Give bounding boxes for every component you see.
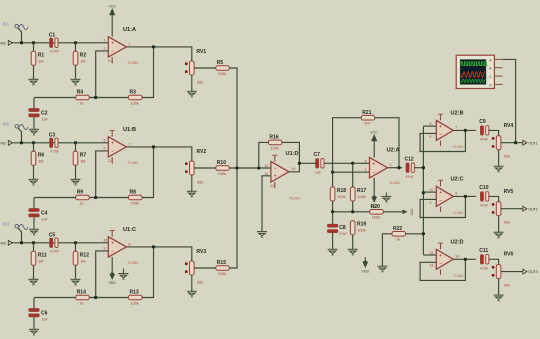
capacitor C8 (327, 224, 348, 236)
svg-text:50k: 50k (197, 181, 203, 185)
svg-text:TL084: TL084 (127, 161, 138, 165)
svg-text:8: 8 (129, 242, 131, 246)
terminal IN2 (1, 140, 13, 145)
junction summing rail (235, 166, 238, 169)
power stub top U1:A (111, 15, 113, 37)
wire RV3 wiper to R15 (194, 267, 216, 269)
potentiometer RV5 (492, 189, 514, 225)
svg-text:50k: 50k (197, 281, 203, 285)
wire C2 leads (33, 98, 35, 109)
terminal OUT1 (523, 140, 538, 145)
capacitor C4 (29, 209, 49, 222)
resistor R2 (73, 51, 86, 65)
svg-text:13: 13 (265, 164, 269, 168)
svg-text:100k: 100k (372, 216, 380, 220)
terminal OUT3 (523, 269, 538, 274)
svg-text:VDD: VDD (108, 281, 116, 285)
junction output node (152, 245, 155, 248)
svg-text:7: 7 (129, 142, 131, 146)
svg-text:U1:D: U1:D (286, 151, 299, 157)
pin stubs oscilloscope B C D (494, 67, 502, 69)
wire summing rail (229, 68, 237, 268)
power stub top U2:D (440, 243, 442, 249)
svg-text:1M: 1M (38, 160, 43, 164)
wire output U2:B (454, 129, 477, 131)
resistor R7 (73, 151, 86, 165)
wire bias rail to + input U2:D (423, 254, 436, 256)
svg-text:1k: 1k (80, 101, 84, 105)
wire R22 left to ground (382, 234, 392, 266)
wire R9 row (34, 197, 76, 199)
svg-text:11: 11 (270, 184, 274, 188)
capacitor C1 (49, 33, 60, 54)
svg-text:12: 12 (265, 172, 269, 176)
ground (71, 279, 81, 285)
svg-text:VCC: VCC (108, 5, 116, 9)
junction R1 top (32, 41, 35, 44)
svg-text:C7: C7 (314, 152, 321, 158)
capacitor C6 (29, 309, 49, 322)
wire RV5 to ground (498, 216, 500, 233)
svg-text:C5: C5 (49, 233, 56, 239)
svg-text:VCC: VCC (370, 130, 378, 134)
svg-text:R18: R18 (337, 188, 346, 194)
power stub top U1:C (111, 231, 113, 237)
junction U2:A output (397, 166, 400, 169)
wire R2 leads (75, 43, 77, 52)
svg-text:R11: R11 (38, 253, 47, 259)
svg-text:12: 12 (430, 251, 434, 255)
op-amp U2:C (430, 176, 464, 215)
resistor R8 (129, 190, 143, 206)
svg-text:R14: R14 (77, 290, 86, 296)
power stub top U2:C (440, 180, 442, 186)
svg-text:U2:B: U2:B (451, 110, 464, 116)
ground (71, 79, 81, 85)
wire bias row (332, 201, 334, 212)
wire C8 leads (332, 212, 334, 224)
svg-text:U1:A: U1:A (123, 27, 136, 33)
ground pin 11 (123, 269, 125, 274)
wire output U2:C (454, 195, 477, 197)
svg-text:1uF: 1uF (42, 217, 49, 221)
capacitor C9 (479, 119, 489, 141)
junction OUT1 node (514, 141, 517, 144)
junction C8 (331, 210, 334, 213)
wire IN2 main row (12, 142, 108, 144)
power flag VCC right (383, 208, 414, 216)
wire C10 to RV5 (489, 196, 499, 201)
svg-text:VDD: VDD (362, 270, 370, 274)
junction U1:D output (298, 162, 301, 165)
wire R21 right leg (375, 118, 399, 168)
capacitor C10 (479, 185, 489, 207)
ground (187, 191, 197, 197)
capacitor C7 (314, 152, 325, 174)
generator IN2 (3, 122, 29, 130)
svg-text:10: 10 (104, 239, 108, 243)
wire feedback node to + input U1:A (96, 51, 109, 98)
resistor R13 (129, 290, 143, 306)
op-amp U2:A (365, 148, 400, 185)
power stub top U1:B (111, 131, 113, 137)
junction R11 top (32, 241, 35, 244)
svg-text:50k: 50k (504, 284, 510, 288)
ground (494, 166, 504, 172)
svg-text:R13: R13 (130, 290, 139, 296)
svg-text:47uF: 47uF (480, 266, 489, 270)
svg-text:100k: 100k (357, 195, 365, 199)
svg-text:6: 6 (430, 135, 432, 139)
wire R6 leads (33, 143, 35, 152)
svg-text:R4: R4 (77, 90, 84, 96)
svg-text:100k: 100k (337, 195, 345, 199)
ground (377, 266, 387, 272)
power VDD below U1:C (111, 257, 113, 272)
svg-text:1k: 1k (80, 201, 84, 205)
resistor R4 (76, 90, 90, 106)
wire feedback node to + input U1:C (96, 251, 109, 298)
svg-text:1k: 1k (80, 301, 84, 305)
svg-text:4.7uF: 4.7uF (50, 50, 60, 54)
generator IN1 (3, 22, 29, 30)
wire RV6 to ground (498, 279, 500, 296)
wire bias rail to + input U2:B (423, 125, 436, 127)
wire RV1 to ground (191, 75, 193, 91)
wire R8 to output node (142, 147, 154, 198)
svg-text:C10: C10 (479, 185, 488, 191)
junction bias rail U2:C (422, 191, 425, 194)
svg-text:IN3: IN3 (1, 242, 6, 246)
op-amp U1:D (265, 151, 300, 201)
junction output U2:D (464, 258, 467, 261)
wire C11 to RV6 (489, 259, 499, 264)
wire IN3 main row (12, 242, 108, 244)
svg-text:R15: R15 (217, 260, 226, 266)
resistor R5 (216, 60, 230, 76)
junction feedback node (94, 96, 97, 99)
junction output U2:C (464, 195, 467, 198)
svg-text:RV4: RV4 (504, 123, 514, 129)
wire summing row to U1:D (229, 167, 271, 169)
power stub bottom U2:B (440, 141, 442, 146)
svg-text:R1: R1 (38, 53, 45, 59)
ground pin U2:A (385, 193, 387, 197)
generator IN3 (3, 222, 29, 230)
ground (29, 179, 39, 185)
wire R16 right leg (282, 142, 300, 163)
svg-text:100k: 100k (218, 72, 226, 76)
wire RV5 wiper to OUT2 (501, 208, 523, 210)
pin stub oscilloscope A (494, 58, 502, 60)
power stub bottom U1:B (111, 157, 113, 163)
svg-text:100k: 100k (131, 301, 139, 305)
junction input node (20, 241, 23, 244)
op-amp U2:D (430, 239, 464, 278)
ground (348, 249, 358, 255)
svg-text:RV6: RV6 (504, 252, 514, 258)
svg-text:R7: R7 (80, 153, 87, 159)
svg-text:C12: C12 (405, 157, 414, 163)
svg-text:C3: C3 (49, 133, 56, 139)
resistor R15 (216, 260, 230, 276)
wire R16 left leg (259, 142, 269, 168)
ground (71, 179, 81, 185)
oscilloscope (456, 55, 494, 88)
junction bias rail R22 (422, 232, 425, 235)
resistor R21 (361, 110, 375, 126)
svg-text:R8: R8 (130, 190, 137, 196)
svg-text:R22: R22 (393, 226, 402, 232)
svg-text:R6: R6 (38, 153, 45, 159)
potentiometer RV3 (185, 249, 206, 285)
wire R7 leads (75, 143, 77, 152)
junction output U2:B (464, 129, 467, 132)
junction output node (152, 145, 155, 148)
resistor R22 (392, 226, 406, 242)
potentiometer RV4 (492, 123, 514, 159)
wire C7 to U2:A top input (324, 162, 370, 164)
ground (328, 249, 338, 255)
ground (29, 229, 39, 235)
svg-text:10: 10 (430, 188, 434, 192)
wire R13 to output node (142, 247, 154, 298)
wire RV2 to ground (191, 175, 193, 191)
ground (29, 129, 39, 135)
wire U2:A output (388, 167, 402, 169)
wire generator IN1 to input node (18, 28, 22, 43)
svg-text:1uF: 1uF (315, 171, 322, 175)
svg-text:4.7uF: 4.7uF (50, 150, 60, 154)
wire R19 to ground (352, 235, 354, 250)
ground (29, 329, 39, 335)
svg-text:1M: 1M (80, 260, 85, 264)
svg-text:IN1: IN1 (3, 22, 10, 27)
power stub bottom U2:C (440, 207, 442, 212)
wire RV6 wiper to OUT3 (501, 271, 523, 273)
capacitor C11 (479, 248, 489, 270)
svg-text:47uF: 47uF (339, 232, 348, 236)
ground (187, 91, 197, 97)
power stub bottom U2:D (440, 270, 442, 275)
svg-text:3: 3 (104, 39, 106, 43)
svg-text:14: 14 (291, 167, 295, 171)
wire RV3 to ground (191, 275, 193, 291)
ground (257, 232, 267, 238)
svg-text:11: 11 (108, 59, 112, 63)
resistor R16 (268, 135, 282, 151)
svg-text:9: 9 (104, 247, 106, 251)
svg-text:50k: 50k (197, 81, 203, 85)
power stub top U2:B (440, 114, 442, 120)
ground (29, 279, 39, 285)
svg-text:R5: R5 (217, 60, 224, 66)
junction R7 top (74, 141, 77, 144)
svg-text:C1: C1 (49, 33, 56, 39)
op-amp U2:B (430, 110, 464, 149)
potentiometer RV2 (185, 149, 206, 185)
svg-text:U2:D: U2:D (451, 239, 464, 245)
power VDD flag lower (362, 257, 370, 274)
svg-text:5: 5 (104, 139, 106, 143)
wire oscilloscope A to OUT1 (503, 59, 516, 142)
svg-text:U1:C: U1:C (123, 227, 136, 233)
svg-text:OUT1: OUT1 (529, 141, 538, 145)
wire feedback loop U2:D (420, 259, 465, 280)
svg-text:1M: 1M (80, 60, 85, 64)
wire bias rail vertical (422, 126, 424, 254)
svg-text:3: 3 (365, 159, 367, 163)
op-amp U1:A (104, 27, 138, 65)
junction R21/R18 tap (331, 171, 334, 174)
power stub top U1:D (274, 155, 276, 161)
wire generator IN2 to input node (18, 128, 22, 143)
wire RV4 to ground (498, 150, 500, 167)
svg-text:C6: C6 (41, 311, 48, 317)
svg-text:14: 14 (455, 255, 459, 259)
svg-text:R2: R2 (80, 53, 87, 59)
svg-text:1: 1 (390, 163, 392, 167)
wire output U1:B (126, 147, 192, 161)
svg-text:R21: R21 (362, 110, 371, 116)
junction feedback node (94, 296, 97, 299)
ground (187, 291, 197, 297)
svg-text:1M: 1M (38, 260, 43, 264)
svg-text:8: 8 (455, 192, 457, 196)
svg-text:1k: 1k (396, 238, 400, 242)
wire generator IN3 to input node (18, 228, 22, 243)
wire U1:D output (289, 163, 316, 172)
svg-text:C9: C9 (479, 119, 486, 125)
wire C12 to bias rail (414, 167, 423, 169)
wire IN1 main row (12, 42, 108, 44)
svg-text:IN3: IN3 (3, 222, 10, 227)
power VDD U2:A (373, 178, 375, 196)
svg-text:1M: 1M (38, 60, 43, 64)
resistor R20 (370, 204, 384, 220)
svg-text:VCC: VCC (410, 208, 414, 216)
svg-text:RV1: RV1 (197, 49, 207, 55)
svg-text:100k: 100k (218, 172, 226, 176)
wire RV2 wiper to R10 (194, 167, 216, 169)
wire C9 to RV4 (489, 130, 499, 135)
op-amp U1:C (104, 227, 138, 265)
resistor R11 (31, 251, 47, 265)
svg-text:U1:B: U1:B (123, 127, 136, 133)
svg-text:13: 13 (430, 264, 434, 268)
potentiometer RV1 (185, 49, 206, 85)
svg-text:TL084: TL084 (453, 145, 464, 149)
junction R6 top (32, 141, 35, 144)
svg-text:100k: 100k (270, 146, 278, 150)
svg-text:U2:A: U2:A (387, 148, 400, 154)
resistor R9 (76, 190, 90, 206)
power stub bottom U1:A (111, 57, 113, 63)
svg-text:100k: 100k (218, 272, 226, 276)
svg-text:47uF: 47uF (480, 137, 489, 141)
svg-text:C4: C4 (41, 211, 48, 217)
resistor R14 (76, 290, 90, 306)
power VCC (108, 5, 116, 15)
svg-text:1uF: 1uF (42, 117, 49, 121)
wire output U1:A (126, 47, 192, 61)
svg-text:47uF: 47uF (406, 175, 415, 179)
ground (494, 232, 504, 238)
wire R17 top leg (352, 163, 354, 187)
wire C4 leads (33, 198, 35, 209)
capacitor C2 (29, 109, 49, 122)
svg-text:TL084: TL084 (453, 274, 464, 278)
resistor R1 (31, 51, 44, 65)
svg-text:6: 6 (104, 147, 106, 151)
svg-text:TL084: TL084 (453, 211, 464, 215)
svg-text:100k: 100k (357, 229, 365, 233)
svg-text:U2:C: U2:C (451, 176, 464, 182)
svg-text:1M: 1M (80, 160, 85, 164)
svg-text:IN2: IN2 (3, 122, 10, 127)
wire bias rail to + input U2:C (423, 191, 436, 193)
terminal IN1 (1, 40, 13, 45)
svg-text:IN1: IN1 (1, 42, 6, 46)
power stub bottom U1:D (274, 182, 276, 188)
resistor R6 (31, 151, 44, 165)
junction bias rail C12 (422, 166, 425, 169)
junction feedback node (94, 196, 97, 199)
resistor R12 (73, 251, 89, 265)
svg-text:TL084: TL084 (289, 197, 300, 201)
op-amp U1:B (104, 127, 138, 165)
wire R21 left leg (333, 118, 362, 187)
capacitor C12 (405, 157, 415, 179)
junction output node (152, 45, 155, 48)
svg-text:TL084: TL084 (127, 261, 138, 265)
svg-text:9: 9 (430, 201, 432, 205)
svg-text:R3: R3 (130, 90, 137, 96)
terminal OUT2 (523, 206, 538, 211)
svg-text:1: 1 (129, 42, 131, 46)
capacitor C5 (49, 233, 60, 254)
resistor R17 (350, 187, 366, 201)
svg-text:R19: R19 (357, 222, 366, 228)
svg-text:100k: 100k (131, 101, 139, 105)
wire output U2:D (454, 258, 477, 260)
svg-text:50k: 50k (504, 155, 510, 159)
wire R3 to output node (142, 47, 154, 98)
svg-text:100k: 100k (131, 201, 139, 205)
svg-text:RV3: RV3 (197, 249, 207, 255)
svg-text:2: 2 (104, 47, 106, 51)
terminal IN3 (1, 240, 13, 245)
svg-text:5: 5 (430, 122, 432, 126)
resistor R18 (330, 187, 346, 201)
svg-text:4.7uF: 4.7uF (50, 250, 60, 254)
svg-text:R10: R10 (217, 160, 226, 166)
svg-text:R12: R12 (80, 253, 89, 259)
svg-text:OUT3: OUT3 (529, 270, 538, 274)
svg-text:50k: 50k (504, 221, 510, 225)
junction R12 top (74, 241, 77, 244)
junction input node (20, 41, 23, 44)
junction R2 top (74, 41, 77, 44)
svg-text:R20: R20 (371, 204, 380, 210)
wire C6 leads (33, 298, 35, 309)
capacitor C3 (49, 133, 60, 154)
svg-text:C8: C8 (339, 225, 346, 231)
wire R12 leads (75, 243, 77, 252)
power VCC U2:A (373, 141, 375, 158)
wire feedback node to + input U1:B (96, 151, 109, 198)
svg-text:TL084: TL084 (127, 61, 138, 65)
